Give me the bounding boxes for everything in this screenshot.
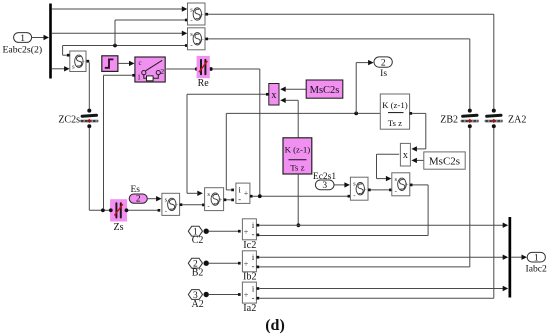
svg-text:Zs: Zs: [114, 222, 124, 233]
svg-text:A2: A2: [191, 299, 203, 310]
svg-text:+: +: [200, 35, 204, 43]
svg-text:+: +: [200, 11, 204, 19]
svg-text:Eabc2s(2): Eabc2s(2): [2, 44, 42, 55]
svg-text:Ic2: Ic2: [243, 240, 256, 251]
svg-text:B2: B2: [192, 268, 204, 279]
svg-text:c: c: [138, 59, 141, 67]
svg-text:2: 2: [136, 195, 141, 205]
svg-text:Re: Re: [198, 78, 210, 89]
svg-text:-: -: [252, 229, 255, 239]
svg-text:C2: C2: [192, 235, 204, 246]
svg-text:ZC2s: ZC2s: [58, 115, 80, 126]
svg-text:Is: Is: [380, 69, 387, 79]
svg-text:Es: Es: [130, 185, 140, 195]
svg-text:+: +: [244, 226, 249, 236]
svg-text:Ib2: Ib2: [243, 272, 257, 283]
svg-text:Ts z: Ts z: [388, 118, 402, 128]
svg-text:+: +: [244, 258, 249, 268]
svg-text:+: +: [174, 201, 178, 209]
svg-text:2: 2: [160, 67, 164, 76]
svg-text:+: +: [218, 196, 222, 204]
svg-text:K (z-1): K (z-1): [285, 145, 311, 155]
svg-text:+: +: [363, 185, 367, 193]
svg-text:Ts z: Ts z: [290, 162, 304, 172]
svg-text:+: +: [244, 290, 249, 300]
svg-text:+: +: [81, 57, 85, 65]
svg-text:-: -: [252, 293, 255, 303]
svg-text:MsC2s: MsC2s: [310, 85, 340, 96]
svg-text:1: 1: [137, 74, 141, 82]
svg-text:+: +: [244, 188, 249, 198]
svg-text:K (z-1): K (z-1): [382, 100, 408, 110]
svg-text:-: -: [252, 261, 255, 271]
svg-text:1: 1: [20, 34, 25, 44]
svg-text:Iabc2: Iabc2: [526, 264, 548, 275]
svg-text:x: x: [403, 150, 408, 161]
svg-text:MsC2s: MsC2s: [429, 156, 460, 168]
svg-text:2: 2: [381, 59, 386, 69]
svg-text:(d): (d): [265, 317, 285, 334]
svg-text:x: x: [271, 90, 276, 101]
svg-text:3: 3: [322, 181, 327, 191]
svg-text:ZB2: ZB2: [440, 114, 458, 125]
svg-text:Ia2: Ia2: [243, 303, 256, 314]
svg-text:-: -: [238, 194, 241, 204]
svg-text:1: 1: [534, 253, 539, 263]
svg-text:ZA2: ZA2: [508, 114, 526, 125]
svg-text:+: +: [405, 181, 409, 189]
